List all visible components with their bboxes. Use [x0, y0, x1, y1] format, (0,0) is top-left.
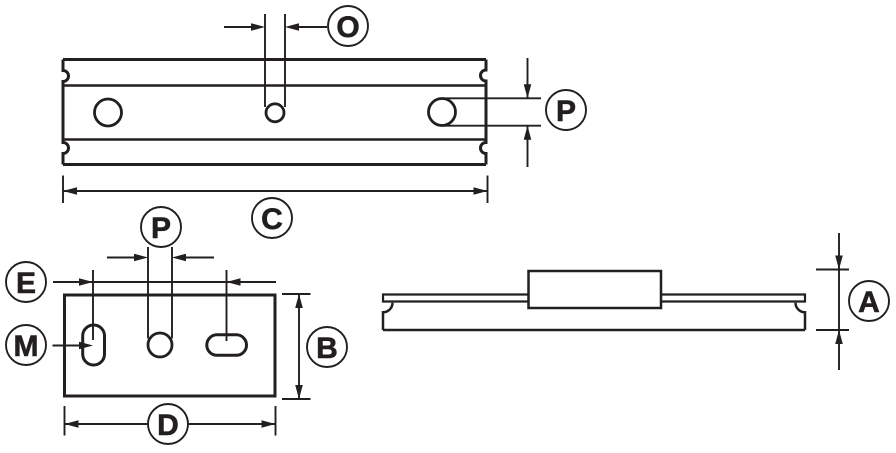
svg-text:B: B: [316, 332, 338, 365]
svg-text:P: P: [556, 95, 576, 128]
svg-text:D: D: [157, 409, 179, 442]
svg-text:O: O: [336, 11, 359, 44]
svg-text:P: P: [151, 212, 171, 245]
svg-text:M: M: [14, 330, 39, 363]
svg-text:C: C: [261, 203, 283, 236]
svg-text:E: E: [16, 267, 36, 300]
svg-text:A: A: [858, 286, 880, 319]
